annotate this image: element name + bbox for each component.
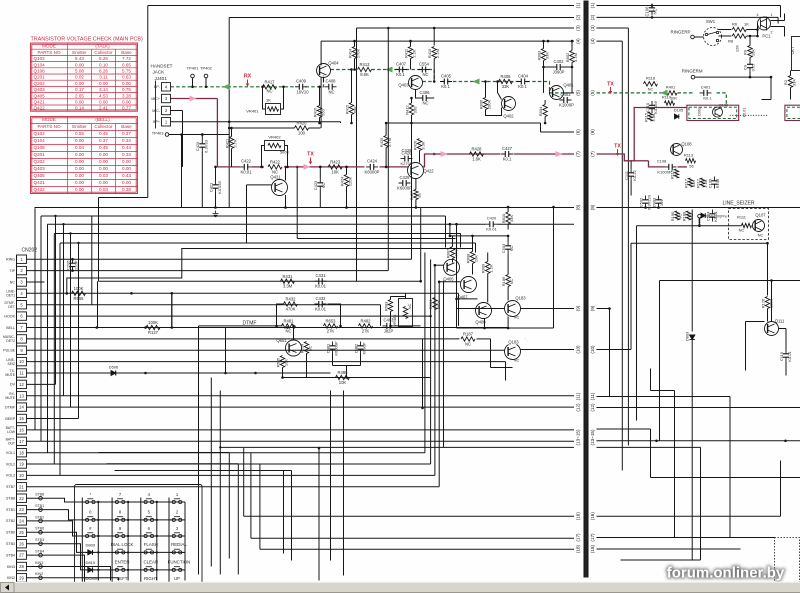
junction: [387, 68, 390, 71]
wire R410 bottom: [433, 59, 435, 82]
connector CN202 pin 26 box: [17, 540, 27, 548]
wire R424 down: [346, 187, 348, 208]
svg-text:14: 14: [19, 405, 24, 410]
wire DVdd down: [699, 218, 701, 226]
transistor Q401: [550, 86, 564, 100]
wire BP+ out 2: [229, 121, 341, 123]
svg-text:STB1: STB1: [35, 504, 44, 508]
svg-text:560K: 560K: [436, 299, 441, 309]
svg-text:C426: C426: [401, 148, 412, 153]
capacitor C402: [553, 64, 565, 70]
resistor R428: [470, 152, 484, 156]
svg-text:R655: R655: [73, 296, 84, 301]
shield box purple 2: [785, 105, 800, 120]
resistor R112: [700, 178, 704, 187]
wire R802 down: [571, 63, 573, 93]
wire R810 down: [507, 224, 509, 230]
svg-text:K0.01: K0.01: [241, 170, 253, 175]
svg-text:K0.01: K0.01: [315, 284, 327, 289]
junction key row3: [156, 535, 158, 537]
junction: [749, 76, 752, 79]
junction: [191, 86, 194, 89]
red arrow TX right: [609, 87, 613, 94]
wire VR401 right: [281, 87, 284, 109]
wire bus18 riser: [259, 464, 261, 550]
wire green to Q401: [527, 82, 564, 93]
wire VR402 right: [285, 146, 288, 167]
connector CN202 pin 12 box: [17, 380, 27, 388]
wire bus(6) left upper: [387, 122, 541, 124]
svg-text:Q404: Q404: [328, 61, 339, 66]
svg-text:17: 17: [19, 439, 24, 444]
svg-text:R189: R189: [682, 211, 687, 221]
svg-text:Q421: Q421: [270, 175, 281, 180]
svg-text:R406: R406: [500, 74, 511, 79]
capacitor C106: [649, 4, 655, 16]
wire Q407 base to riser: [439, 281, 460, 283]
wire C421 down: [215, 193, 217, 208]
junction key row2: [97, 519, 99, 521]
resistor R804: [543, 105, 547, 117]
wire riser x55: [55, 216, 57, 384]
wire maroon R422 to C424: [287, 166, 365, 168]
svg-text:3.11: 3.11: [99, 75, 108, 80]
svg-text:R417: R417: [264, 79, 275, 84]
svg-text:10: 10: [19, 359, 24, 364]
wire pin15 BEEP: [27, 418, 79, 420]
svg-text:3.3K: 3.3K: [651, 113, 656, 122]
junction: [353, 40, 356, 43]
junction: [171, 326, 174, 329]
svg-text:2: 2: [771, 31, 773, 35]
connector CN202 pin 24 box: [17, 517, 27, 525]
svg-text:D903: D903: [652, 197, 657, 207]
wire vertical x475 down: [475, 243, 477, 253]
wire R416 down: [319, 118, 321, 124]
svg-text:16V10: 16V10: [296, 90, 309, 95]
junction: [171, 292, 174, 295]
resistor R432: [284, 302, 298, 306]
wire left frame vertical: [147, 6, 149, 198]
capacitor C407: [395, 67, 407, 73]
wire y390 right: [651, 390, 675, 392]
capacitor C111: [628, 169, 634, 181]
wire R421 top: [231, 128, 233, 137]
transistor Q402: [502, 97, 516, 111]
svg-text:NC: NC: [407, 304, 412, 310]
svg-text:0.02: 0.02: [75, 75, 84, 80]
junction: [318, 447, 321, 450]
maroon junction: [385, 166, 388, 169]
resistor VR402 body: [268, 143, 281, 147]
wire bottom vertical x237.8: [237, 464, 239, 575]
capacitor C403: [560, 97, 572, 103]
wire long vertical x636: [636, 226, 638, 421]
wire Q651 base: [293, 326, 295, 340]
resistor R420: [295, 126, 309, 130]
svg-text:Q111: Q111: [775, 319, 785, 324]
svg-text:STB7: STB7: [6, 485, 15, 489]
handset jack JJ401 outline: [155, 81, 157, 129]
wire bus(18) right: [597, 548, 741, 550]
wire nest vertical x59.5: [59, 243, 61, 475]
green arrow mid: [386, 67, 393, 73]
wire bus(8) left: [35, 207, 575, 209]
svg-text:MUTE: MUTE: [5, 373, 15, 377]
wire MIC- out: [171, 110, 183, 112]
wire x780 up: [780, 461, 782, 517]
connector CN202 pin 29 box: [17, 574, 27, 582]
svg-text:D902: D902: [698, 107, 702, 116]
svg-text:(4): (4): [575, 38, 580, 44]
svg-text:R426: R426: [413, 140, 418, 150]
svg-text:SW1: SW1: [706, 19, 716, 24]
wire pin18 VOL1: [27, 452, 425, 454]
svg-text:Q407: Q407: [457, 295, 468, 300]
svg-text:0.44: 0.44: [122, 145, 131, 150]
wire pc1 pin: [757, 24, 759, 37]
wire vertical x228.7: [228, 18, 230, 208]
dotted box bottom right: [775, 538, 800, 593]
wire maroon rise to y107: [634, 108, 657, 149]
svg-text:(11): (11): [575, 392, 580, 400]
terminal STB0: [39, 531, 43, 535]
svg-text:220P: 220P: [74, 260, 79, 270]
junction: [219, 446, 221, 448]
svg-text:(10): (10): [575, 345, 580, 354]
svg-text:16: 16: [19, 428, 24, 433]
svg-text:2.41: 2.41: [99, 106, 108, 111]
svg-text:2.2K: 2.2K: [412, 49, 417, 58]
wire STB7 riser: [438, 282, 440, 487]
connector CN202 pin 17 box: [17, 437, 27, 445]
resistor R9: [748, 46, 752, 58]
svg-text:R127: R127: [148, 330, 159, 335]
svg-text:R422: R422: [270, 160, 281, 165]
scrollbar left button: [1, 583, 15, 593]
resistor R431: [281, 279, 295, 283]
diode D810: [85, 567, 95, 572]
svg-text:(17): (17): [590, 533, 595, 542]
svg-text:Q108: Q108: [34, 69, 46, 74]
resistor R425: [384, 136, 388, 148]
svg-text:J390P: J390P: [553, 70, 565, 75]
wire R431 line: [99, 280, 421, 282]
wire R9-C9: [749, 58, 751, 61]
diode D506: [109, 371, 119, 376]
junction riser x55: [54, 215, 56, 217]
junction: [766, 242, 769, 245]
resistor R803: [541, 49, 545, 61]
svg-text:0.00: 0.00: [75, 166, 84, 171]
svg-text:Q183: Q183: [515, 296, 526, 301]
resistor R406: [499, 79, 513, 83]
resistor R685: [280, 356, 284, 368]
wire sw1 to R8: [719, 35, 732, 37]
wire Q422 emitter down: [415, 179, 417, 190]
svg-text:0.00: 0.00: [122, 166, 131, 171]
wire VOL1 riser: [424, 253, 426, 453]
junction: [756, 35, 759, 38]
svg-text:Q104: Q104: [34, 138, 46, 143]
junction key row3: [97, 535, 99, 537]
svg-text:R481: R481: [283, 319, 294, 324]
svg-text:0.45: 0.45: [99, 145, 108, 150]
wire key col 4 right: [184, 502, 186, 581]
wire R415 down: [351, 115, 353, 124]
wire vertical x445 down: [445, 216, 447, 248]
junction: [455, 223, 458, 226]
junction: [770, 279, 773, 282]
wire bus16 riser: [243, 448, 245, 516]
wire pin10: [27, 361, 506, 363]
wire x609 down: [609, 309, 611, 397]
svg-text:NC: NC: [321, 183, 326, 189]
red arrow TX left: [309, 158, 313, 165]
wire green bus(5) right c: [717, 93, 727, 105]
wire vertical x98: [98, 198, 100, 282]
svg-text:Q651: Q651: [276, 338, 287, 343]
svg-text:(1): (1): [590, 2, 595, 8]
junction: [260, 166, 263, 169]
junction key row5: [127, 569, 129, 571]
wire R421 bottom: [231, 149, 233, 167]
svg-text:R411: R411: [404, 48, 409, 58]
svg-text:0.00: 0.00: [122, 81, 131, 86]
connector CN202 pin 6 box: [17, 312, 27, 320]
voltage table TALK: [31, 43, 138, 111]
capacitor C404: [517, 79, 529, 85]
svg-text:STB0: STB0: [6, 531, 15, 535]
wire ckt-R2: [790, 71, 792, 76]
svg-text:29: 29: [19, 575, 24, 580]
svg-text:K0.01: K0.01: [713, 210, 718, 221]
wire pin5 down: [380, 305, 382, 326]
wire pin28 to keypad col: [27, 567, 111, 581]
capacitor C110: [649, 101, 655, 113]
wire to R111: [700, 225, 742, 227]
wire corner right: [780, 6, 782, 18]
junction: [544, 122, 547, 125]
wire pin7 BELL: [27, 327, 509, 329]
connector CN202 pin 7 box: [17, 323, 27, 331]
key switch r2c3: [141, 517, 157, 522]
junction: [261, 86, 264, 89]
junction: [410, 97, 413, 100]
transistor Q651: [286, 340, 302, 356]
svg-text:C424: C424: [367, 159, 378, 164]
capacitor C409: [295, 84, 307, 90]
svg-text:R413: R413: [359, 62, 370, 67]
diode D809: [85, 550, 95, 555]
svg-text:19: 19: [19, 462, 24, 467]
svg-text:R810: R810: [501, 213, 506, 223]
svg-text:0.33: 0.33: [122, 152, 131, 157]
svg-text:0.77: 0.77: [122, 106, 131, 111]
resistor R806: [483, 98, 487, 110]
wire C111 down: [630, 181, 632, 196]
wire green to Q404: [306, 76, 324, 87]
wire pin25 to keypad row4: [27, 532, 83, 552]
wire pin10 up: [505, 362, 507, 381]
svg-text:8.26: 8.26: [99, 56, 108, 61]
jack pin 1 box: [162, 118, 171, 126]
wire ringerp: [695, 36, 704, 38]
resistor R481: [282, 324, 296, 328]
svg-text:(12): (12): [575, 403, 580, 412]
junction: [66, 292, 69, 295]
svg-text:NC: NC: [328, 90, 334, 95]
wire bus17 riser: [250, 453, 252, 539]
wire vertical x356: [356, 28, 358, 281]
wire maroon to shield box: [658, 107, 687, 109]
wire Q404 emitter down: [323, 78, 325, 83]
wire key row 2: [82, 519, 185, 521]
svg-text:D802: D802: [697, 216, 702, 226]
resistor R410: [432, 47, 436, 59]
svg-text:(18): (18): [575, 544, 580, 553]
wire x700 down: [700, 447, 702, 560]
wire R420 right: [309, 127, 321, 129]
junction: [655, 440, 658, 443]
wire bus(17) left: [251, 537, 574, 539]
wire rail right riser to bus8: [553, 207, 555, 328]
transistor Q403: [409, 76, 423, 90]
resistor R802: [570, 51, 574, 63]
svg-text:D105: D105: [674, 108, 684, 113]
svg-text:TP403: TP403: [152, 131, 165, 136]
wire stub: [340, 122, 342, 123]
wire bottom vertical x330: [330, 391, 332, 561]
svg-text:Q421: Q421: [34, 180, 46, 185]
svg-text:25: 25: [19, 530, 24, 535]
junction: [345, 166, 348, 169]
svg-text:C402: C402: [553, 59, 564, 64]
svg-text:R803: R803: [537, 50, 542, 60]
svg-text:C421: C421: [208, 182, 213, 192]
svg-text:NC: NC: [739, 228, 745, 233]
voltage table BELL: [31, 117, 138, 194]
svg-text:(9): (9): [590, 305, 595, 311]
junction: [409, 40, 412, 43]
svg-text:0.00: 0.00: [99, 81, 108, 86]
wire C205 top: [72, 259, 74, 260]
svg-text:NC: NC: [509, 246, 514, 252]
wire R808 down: [472, 264, 474, 275]
wire key col 1 left: [81, 498, 83, 586]
svg-text:STB0: STB0: [35, 527, 44, 531]
wire cluster bottom rail: [457, 327, 554, 329]
svg-text:NC: NC: [422, 72, 428, 77]
wire TP403 stub: [169, 134, 229, 136]
svg-text:0.00: 0.00: [75, 100, 84, 105]
svg-text:K0.1: K0.1: [396, 72, 405, 77]
svg-text:12K: 12K: [735, 45, 740, 52]
svg-text:DET1: DET1: [6, 294, 15, 298]
svg-text:56: 56: [689, 164, 694, 169]
svg-text:0.37: 0.37: [99, 138, 108, 143]
svg-text:(12): (12): [590, 403, 595, 412]
wire down right: [770, 77, 772, 99]
svg-text:5.08: 5.08: [75, 69, 84, 74]
wire PC1 pin2 out: [771, 26, 785, 28]
resistor R808: [470, 252, 474, 264]
wire to R412: [411, 98, 413, 103]
resistor R176: [765, 297, 769, 309]
pink arrow TX 1: [304, 164, 311, 170]
connector CN202 pin 5 box: [17, 301, 27, 309]
wire R806 up: [485, 82, 487, 98]
svg-text:RINGERM: RINGERM: [682, 69, 703, 74]
capacitor C420: [486, 221, 498, 227]
wire long vertical x691.7 upper: [691, 210, 693, 332]
svg-text:DTMF: DTMF: [5, 405, 16, 409]
wire green bus(5) right a: [597, 92, 665, 94]
wire bus(2) right: [597, 16, 779, 18]
svg-text:8.26: 8.26: [99, 69, 108, 74]
svg-text:TP401: TP401: [187, 66, 200, 71]
svg-text:CN202: CN202: [22, 248, 38, 254]
svg-text:Q405: Q405: [34, 93, 46, 98]
wire pin1 RING: [27, 258, 412, 260]
svg-text:R683: R683: [384, 301, 389, 311]
wire R414 down: [354, 59, 356, 70]
wire nest bus y242.5: [60, 242, 476, 244]
wire maroon stub: [634, 160, 648, 162]
key switch r4c4: [169, 549, 185, 554]
resistor R413: [358, 67, 372, 71]
wire R683 down: [390, 312, 392, 326]
svg-text:Q403: Q403: [34, 166, 46, 171]
svg-text:STB3: STB3: [6, 542, 15, 546]
svg-text:68K: 68K: [353, 106, 358, 113]
resistor R411: [408, 47, 412, 59]
connector CN202 pin 10 box: [17, 357, 27, 365]
connector CN202 pin 28 box: [17, 562, 27, 570]
trimmer VR401: [266, 104, 281, 115]
junction: [421, 407, 424, 410]
jack pin 2 box: [162, 106, 171, 114]
svg-text:Q106: Q106: [719, 104, 728, 108]
junction: [542, 40, 545, 43]
terminal DVdd: [698, 214, 702, 218]
wire pin20 VOL3: [27, 474, 435, 476]
resistor R190: [675, 211, 679, 220]
svg-text:DV: DV: [10, 383, 16, 387]
junction: [651, 4, 654, 7]
wire R685 down: [282, 368, 284, 378]
wire x767 down: [767, 243, 769, 295]
svg-text:(2): (2): [575, 14, 580, 20]
wire bottom vertical x228.8: [228, 453, 230, 559]
svg-text:TRANSISTOR VOLTAGE CHECK (MAIN: TRANSISTOR VOLTAGE CHECK (MAIN PCB): [31, 37, 144, 43]
capacitor C408: [325, 84, 337, 90]
key switch r4c2: [112, 549, 128, 554]
junction: [483, 327, 486, 330]
svg-text:0.37: 0.37: [122, 131, 131, 136]
svg-text:0.00: 0.00: [99, 100, 108, 105]
svg-text:270K: 270K: [356, 48, 361, 58]
junction: [385, 166, 388, 169]
svg-text:0.00: 0.00: [99, 159, 108, 164]
wire to R9: [749, 36, 751, 46]
svg-text:Q202: Q202: [34, 81, 46, 86]
svg-text:0.14: 0.14: [75, 106, 84, 111]
shield box green dash 2: [787, 107, 800, 118]
svg-text:KIN2: KIN2: [7, 576, 15, 580]
wire C115 down: [785, 362, 787, 376]
wire y477 right: [651, 477, 800, 479]
